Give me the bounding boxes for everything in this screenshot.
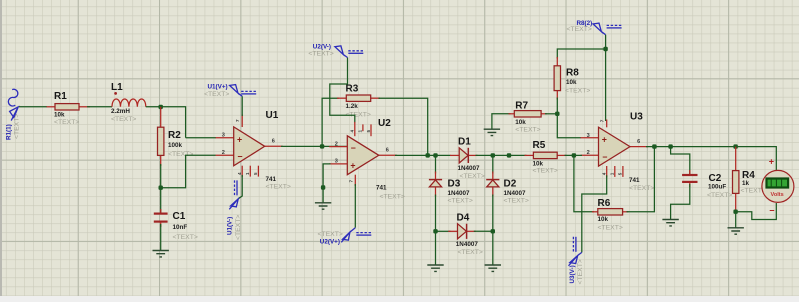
svg-text:D4: D4 bbox=[457, 213, 470, 224]
node junction D4 left bbox=[433, 229, 437, 233]
svg-text:R8: R8 bbox=[566, 68, 579, 79]
svg-text:1: 1 bbox=[358, 130, 363, 133]
svg-text:10k: 10k bbox=[54, 112, 65, 119]
node junction R6 column bbox=[572, 153, 576, 157]
svg-text:<TEXT>: <TEXT> bbox=[504, 198, 529, 205]
node junction D3 column top bbox=[433, 153, 437, 157]
node junction R4 branch bbox=[733, 144, 737, 148]
wire D1 to D2 column bbox=[476, 154, 493, 156]
svg-text:<TEXT>: <TEXT> bbox=[204, 91, 229, 98]
svg-text:<TEXT>: <TEXT> bbox=[577, 259, 584, 284]
svg-text:<TEXT>: <TEXT> bbox=[448, 198, 473, 205]
inductor L1 bbox=[112, 92, 146, 107]
svg-text:R3: R3 bbox=[346, 84, 359, 95]
ground below R7 left bbox=[484, 129, 500, 135]
svg-text:1: 1 bbox=[610, 172, 615, 175]
svg-text:4: 4 bbox=[350, 130, 355, 133]
diode D2 bbox=[486, 155, 499, 264]
svg-text:5: 5 bbox=[366, 130, 371, 133]
wire input to R1 bbox=[19, 106, 47, 108]
node junction R6 feedback bbox=[652, 144, 656, 148]
wire U1 pin7 to V+ terminal bbox=[241, 96, 243, 116]
node junction feedback on U1-U2 wire bbox=[320, 144, 324, 148]
diode D3 bbox=[429, 155, 442, 264]
svg-text:−: − bbox=[602, 152, 607, 162]
svg-text:U2(V-): U2(V-) bbox=[313, 43, 331, 50]
svg-text:<TEXT>: <TEXT> bbox=[308, 51, 333, 58]
svg-text:D3: D3 bbox=[448, 179, 461, 190]
svg-text:6: 6 bbox=[386, 148, 389, 154]
svg-text:6: 6 bbox=[637, 139, 640, 145]
wire U1 pin4 to V- terminal bbox=[238, 175, 242, 199]
svg-text:−: − bbox=[237, 152, 242, 162]
svg-text:R1(1): R1(1) bbox=[5, 124, 12, 140]
svg-text:5: 5 bbox=[618, 172, 623, 175]
svg-text:7: 7 bbox=[235, 119, 240, 122]
svg-text:1N4007: 1N4007 bbox=[458, 165, 481, 172]
wire R1 to L1 bbox=[87, 106, 112, 108]
node junction R2/C1 bbox=[159, 186, 163, 190]
svg-text:3: 3 bbox=[222, 133, 225, 139]
svg-text:<TEXT>: <TEXT> bbox=[266, 184, 291, 191]
voltmeter body bbox=[762, 170, 794, 202]
ground below D2 bbox=[485, 265, 501, 271]
svg-text:+: + bbox=[769, 156, 774, 166]
svg-text:R7: R7 bbox=[515, 100, 528, 111]
op-amp U3 bbox=[581, 120, 649, 178]
svg-text:741: 741 bbox=[266, 176, 277, 183]
power terminal U1(V+) bbox=[204, 84, 256, 99]
power terminal U2(V+) bbox=[318, 228, 372, 246]
node junction R7/R8 bbox=[555, 112, 559, 116]
svg-text:<TEXT>: <TEXT> bbox=[173, 234, 198, 241]
ground below R4 bbox=[728, 228, 744, 234]
node junction R3 column bbox=[426, 153, 430, 157]
power terminal U1(V-) bbox=[227, 180, 242, 240]
power terminal U2(V-) bbox=[308, 43, 363, 57]
capacitor C2 bbox=[682, 170, 697, 187]
svg-text:<TEXT>: <TEXT> bbox=[567, 26, 592, 33]
svg-text:R1: R1 bbox=[54, 91, 67, 102]
wire U3 pin4 to V- terminal bbox=[582, 175, 607, 252]
wire R3 left to minus input bbox=[322, 98, 339, 146]
wire R8(2) terminal to U3 pin7 and R8 bbox=[557, 35, 605, 121]
wire R7 left to ground bbox=[492, 114, 511, 129]
op-amp U2 bbox=[329, 122, 397, 186]
svg-text:741: 741 bbox=[376, 185, 387, 192]
resistor R1 bbox=[47, 104, 91, 110]
resistor R6 bbox=[592, 209, 628, 215]
svg-text:<TEXT>: <TEXT> bbox=[460, 173, 485, 180]
svg-text:R5: R5 bbox=[533, 140, 546, 151]
diode D1 bbox=[450, 148, 478, 163]
wire R5 to U3 minus input bbox=[565, 154, 583, 156]
resistor R7 bbox=[509, 111, 547, 117]
svg-text:10k: 10k bbox=[598, 216, 609, 223]
svg-text:U1(V+): U1(V+) bbox=[208, 84, 228, 91]
svg-text:100uF: 100uF bbox=[708, 184, 726, 191]
svg-text:2.2mH: 2.2mH bbox=[111, 108, 130, 115]
node junction D4 right bbox=[491, 229, 495, 233]
wire voltmeter minus return bbox=[736, 203, 777, 220]
svg-text:<TEXT>: <TEXT> bbox=[380, 193, 405, 200]
wire R6 left column bbox=[574, 155, 594, 211]
ground below U2 plus input bbox=[315, 203, 331, 209]
svg-text:+: + bbox=[602, 135, 607, 145]
svg-text:<TEXT>: <TEXT> bbox=[54, 119, 79, 126]
svg-text:U3(V-): U3(V-) bbox=[569, 265, 576, 283]
svg-text:10k: 10k bbox=[533, 160, 544, 167]
svg-text:C2: C2 bbox=[709, 173, 722, 184]
capacitor C1 bbox=[154, 188, 168, 251]
wire R8 bottom to U3 plus input bbox=[557, 98, 581, 138]
wire U1 minus input return bbox=[161, 155, 216, 188]
wire U2 pin7 to V+ terminal bbox=[354, 184, 356, 228]
svg-text:1k: 1k bbox=[742, 180, 750, 187]
svg-text:L1: L1 bbox=[111, 82, 123, 93]
svg-text:D1: D1 bbox=[458, 137, 471, 148]
wire R2 bottom to C1 junction bbox=[160, 164, 162, 188]
svg-text:<TEXT>: <TEXT> bbox=[235, 215, 242, 240]
svg-text:+: + bbox=[350, 160, 355, 170]
svg-text:<TEXT>: <TEXT> bbox=[458, 249, 483, 256]
svg-text:7: 7 bbox=[600, 119, 605, 122]
wire R3 right to U2 output column bbox=[379, 98, 428, 155]
svg-text:5: 5 bbox=[253, 172, 258, 175]
svg-text:<TEXT>: <TEXT> bbox=[168, 151, 193, 158]
svg-text:D2: D2 bbox=[504, 179, 517, 190]
svg-text:U2(V+): U2(V+) bbox=[320, 239, 340, 246]
wire R7 right to R8 column bbox=[545, 113, 557, 115]
svg-text:U2: U2 bbox=[378, 118, 391, 129]
svg-text:C1: C1 bbox=[173, 211, 186, 222]
svg-text:741: 741 bbox=[629, 177, 640, 184]
node junction D2 column top bbox=[491, 153, 495, 157]
op-amp U1 bbox=[216, 115, 283, 178]
svg-text:1.2k: 1.2k bbox=[346, 103, 359, 110]
svg-text:<TEXT>: <TEXT> bbox=[707, 192, 732, 199]
svg-text:<TEXT>: <TEXT> bbox=[565, 88, 590, 95]
svg-text:+: + bbox=[237, 134, 242, 144]
wire U2 output to bridge bbox=[395, 154, 451, 156]
diode D4 bbox=[436, 224, 493, 239]
svg-text:<TEXT>: <TEXT> bbox=[598, 225, 623, 232]
node junction terminal column bbox=[603, 47, 607, 51]
node junction C2 branch bbox=[668, 144, 672, 148]
wire U1 plus input bbox=[186, 137, 216, 139]
svg-text:<TEXT>: <TEXT> bbox=[14, 114, 21, 139]
wire U3 output run bbox=[646, 147, 776, 170]
resistor R2 bbox=[158, 107, 164, 166]
wire L1 to junction and U1 branch bbox=[146, 107, 186, 138]
svg-text:10k: 10k bbox=[515, 119, 526, 126]
wire U1 output to U2 bbox=[281, 145, 347, 147]
svg-text:4: 4 bbox=[237, 172, 242, 175]
node junction R4 bottom bbox=[733, 210, 737, 214]
svg-text:10k: 10k bbox=[566, 79, 577, 86]
ground below D3 bbox=[427, 265, 443, 271]
svg-text:2: 2 bbox=[335, 141, 338, 147]
svg-text:4: 4 bbox=[602, 172, 607, 175]
wire C2 branch bbox=[671, 147, 690, 174]
node junction L1/R2 bbox=[159, 105, 163, 109]
svg-text:Volts: Volts bbox=[771, 192, 784, 198]
svg-text:−: − bbox=[351, 143, 356, 153]
ground below C2 bbox=[662, 220, 678, 226]
svg-text:<TEXT>: <TEXT> bbox=[111, 116, 136, 123]
svg-text:3: 3 bbox=[587, 133, 590, 139]
svg-text:U1: U1 bbox=[266, 110, 279, 121]
svg-text:6: 6 bbox=[272, 139, 275, 145]
power terminal U3(V-) bbox=[569, 237, 585, 285]
svg-text:<TEXT>: <TEXT> bbox=[533, 168, 558, 175]
input terminal R1(1) bbox=[5, 89, 20, 140]
node dot on ground branch bbox=[321, 185, 325, 189]
svg-text:7: 7 bbox=[349, 180, 354, 183]
ground below C1 bbox=[153, 251, 169, 257]
wire bridge to R5 bbox=[493, 154, 527, 156]
resistor R4 bbox=[733, 147, 739, 212]
wire R4 bottom to ground bbox=[735, 212, 737, 228]
svg-text:U3: U3 bbox=[630, 112, 643, 123]
svg-text:2: 2 bbox=[222, 150, 225, 156]
svg-text:U1(V-): U1(V-) bbox=[227, 217, 234, 235]
svg-text:10nF: 10nF bbox=[173, 224, 188, 231]
resistor R8 bbox=[554, 57, 560, 100]
svg-text:1N4007: 1N4007 bbox=[504, 190, 527, 197]
wire R6 right to output column bbox=[627, 147, 655, 212]
resistor R5 bbox=[525, 152, 567, 158]
svg-text:3: 3 bbox=[335, 159, 338, 165]
svg-text:<TEXT>: <TEXT> bbox=[629, 185, 654, 192]
wire U2(V-) terminal to pin4 bbox=[330, 58, 355, 123]
resistor R3 bbox=[337, 95, 380, 101]
svg-text:R2: R2 bbox=[168, 130, 181, 141]
svg-text:<TEXT>: <TEXT> bbox=[318, 231, 343, 238]
svg-text:2: 2 bbox=[587, 150, 590, 156]
svg-text:1: 1 bbox=[245, 172, 250, 175]
svg-text:<TEXT>: <TEXT> bbox=[515, 126, 540, 133]
svg-text:−: − bbox=[769, 206, 774, 216]
node extra junction dot bbox=[507, 153, 511, 157]
terminal R8(2) bbox=[567, 20, 622, 35]
svg-text:1N4007: 1N4007 bbox=[448, 190, 471, 197]
wire U2 plus input to ground bbox=[323, 164, 330, 203]
svg-text:100k: 100k bbox=[168, 142, 183, 149]
svg-text:1N4007: 1N4007 bbox=[456, 241, 479, 248]
svg-text:R6: R6 bbox=[598, 198, 611, 209]
wire C2 bottom to ground bbox=[671, 184, 690, 219]
